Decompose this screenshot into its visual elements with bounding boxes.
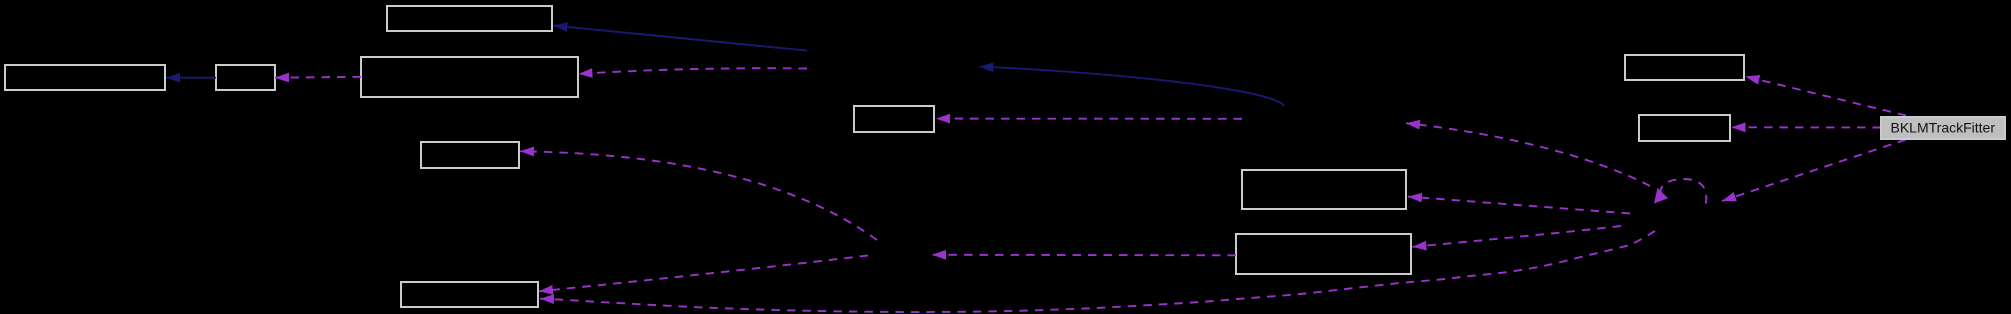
node box 11 (right) [1639,115,1730,141]
usage edge dashed: BKLMTrackFitter to box10 [1746,77,1907,116]
usage edge dashed: hidden N1 to box7 upper [539,256,868,292]
node box 2 (far left) [5,65,165,90]
usage edge dashed: hidden N2 to hidden N4 [1406,123,1650,186]
main node BKLMTrackFitter [1881,117,2005,139]
svg-text:BKLMTrackFitter: BKLMTrackFitter [1891,120,1996,136]
node box 1 (top) [387,6,552,31]
inheritance edge blue: box3 to box2 [166,77,216,79]
usage edge dashed: hidden N2 to box9 [1413,226,1622,247]
node box 3 (small) [216,65,275,90]
self loop arrowhead [1654,188,1668,204]
usage edge dashed: hidden N3 to box4 [579,68,808,74]
usage edge dashed curve: hidden N1 to box6 [520,151,877,240]
node box 4 (two-line) [361,57,578,97]
usage edge dashed: hidden N2 to box8 [1408,197,1630,214]
node box 8 (right column upper, two-line) [1242,170,1406,209]
self loop dashed arc on hidden N2 [1660,179,1706,204]
usage edge dashed: hidden N4 to box5 [936,118,1242,120]
inheritance edge blue curved: hidden node N4 to hidden node N3 [980,67,1285,106]
usage edge dashed: BKLMTrackFitter to box11 [1732,126,1882,128]
node box 7 (bottom-left) [401,282,538,307]
node box 5 (middle) [854,106,934,132]
usage edge dashed: box9 to hidden N1 [932,254,1236,257]
inheritance edge blue: hidden node N3 to box1 [554,26,808,51]
node box 10 (top right) [1625,55,1744,80]
node box 9 (right column lower, two-line) [1236,234,1411,274]
usage edge dashed long bottom curve: hidden N2 to box7 [540,231,1655,312]
node box 6 (mid-left) [421,142,519,168]
usage edge dashed: box4 to box3 [275,76,361,79]
usage edge dashed: BKLMTrackFitter to hidden N2 [1722,140,1906,202]
